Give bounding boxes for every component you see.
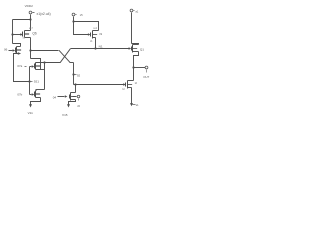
terminal arrow bottom right	[130, 103, 133, 106]
wire Q7a/Q7b gate vertical	[29, 67, 31, 95]
net stub 92c	[74, 74, 77, 76]
transistor Q4 channel bar	[70, 93, 72, 101]
svg-text:N1: N1	[99, 44, 103, 48]
junction dot Q4 drain	[74, 83, 76, 85]
transistor Q6 source stub	[25, 37, 31, 39]
wire net N1 long	[71, 48, 130, 50]
transistor Q7a drain stub	[36, 62, 61, 64]
transistor Q4 gate bar	[69, 95, 71, 99]
transistor Q6b bulk dashes	[17, 49, 22, 51]
wire cascode vertical	[44, 63, 46, 90]
wire Q9 source down	[95, 38, 97, 49]
svg-text:07a: 07a	[17, 64, 22, 68]
transistor Q1 drain stub	[133, 44, 139, 46]
wire pin stub ct	[76, 14, 77, 16]
transistor Q6b gate bar	[15, 48, 17, 53]
arrow Q7a gate	[32, 65, 35, 68]
svg-text:b2: b2	[122, 89, 125, 91]
transistor Q7b bulk dashes	[36, 93, 41, 95]
transistor Q7b gate bar	[34, 92, 36, 97]
arrow Q1 gate	[129, 47, 132, 50]
svg-text:92: 92	[77, 73, 81, 77]
svg-text:V15: V15	[62, 113, 68, 117]
wire Q7b gate bend	[30, 94, 32, 96]
pin Q4 bulk	[77, 95, 80, 98]
svg-text:t9: t9	[100, 32, 103, 36]
transistor Q1b drain stub	[128, 80, 134, 82]
svg-text:Q1: Q1	[140, 47, 144, 51]
wire cross upper-left arm	[31, 50, 59, 52]
transistor Q4 bulk dashes	[71, 96, 76, 98]
wire center vertical down	[73, 63, 75, 85]
svg-text:x1(x2.u4): x1(x2.u4)	[37, 12, 51, 16]
wire VDD2 stub	[33, 12, 35, 14]
wire Q4 drain up	[75, 85, 77, 93]
wire Q6b drain route	[13, 44, 21, 47]
transistor Q7b channel bar	[35, 91, 37, 98]
wire cross bottom right	[70, 62, 74, 64]
wire Q4 gate stub	[58, 96, 65, 98]
transistor Q1b gate bar	[125, 83, 127, 87]
wire tr down	[131, 13, 133, 44]
arrow Q7b gate	[32, 93, 35, 96]
transistor Q1 gate bar	[131, 47, 133, 51]
transistor Q9 drain stub	[93, 30, 99, 32]
wire Q1 source route	[134, 52, 139, 68]
wire Q7a diode vertical	[40, 63, 42, 70]
junction dot node n2	[29, 49, 31, 51]
wire Q6 gate	[13, 34, 21, 36]
transistor Q9 bulk dashes	[93, 34, 98, 36]
svg-text:d1: d1	[90, 41, 93, 43]
transistor Q9 source stub	[93, 37, 96, 39]
junction dot Q6 gate	[11, 33, 13, 35]
wire Q6b source route	[14, 54, 30, 82]
junction dot OUT	[132, 66, 134, 68]
junction dot cascode	[43, 61, 45, 63]
junction dot net 92c	[72, 73, 74, 75]
transistor Q4 drain stub	[71, 92, 76, 94]
pin center top	[72, 13, 75, 16]
wire Q4 bulk	[73, 96, 77, 98]
transistor Q7b drain stub	[36, 90, 37, 92]
junction dot rail	[29, 18, 31, 20]
svg-text:VDD2: VDD2	[25, 4, 34, 8]
wire cross diagonal up	[60, 49, 70, 63]
leader OUT	[146, 70, 148, 73]
svg-text:a1: a1	[136, 10, 139, 13]
arrow Q9 gate	[88, 33, 91, 36]
transistor Q1 source stub	[133, 51, 139, 53]
pin OUT	[145, 66, 148, 69]
svg-text:a17: a17	[29, 28, 34, 30]
transistor Q6 channel bar	[24, 31, 26, 38]
junction dot Q6b source	[17, 52, 19, 54]
transistor Q1b channel bar	[127, 81, 129, 89]
svg-text:Q6: Q6	[32, 32, 36, 36]
svg-text:x5: x5	[80, 13, 83, 17]
wire Q7a gate bend	[30, 66, 32, 68]
transistor Q6b channel bar	[16, 47, 18, 54]
svg-text:07b: 07b	[17, 93, 22, 97]
junction dot mirror node	[28, 80, 30, 82]
arrow Q4 gate	[65, 95, 68, 98]
transistor Q7b source stub	[36, 97, 41, 99]
transistor Q4 source stub	[71, 99, 76, 101]
transistor Q6 drain stub	[25, 30, 31, 32]
transistor Q1 channel bar	[132, 45, 134, 53]
terminal arrow V15	[67, 104, 70, 107]
wire left vertical	[12, 20, 14, 44]
transistor Q7a bulk dashes	[36, 65, 41, 67]
leader Q4 bulk	[78, 99, 80, 101]
wire to Q9 drain	[74, 22, 99, 31]
net stub 92	[30, 81, 33, 83]
arrow Q1b gate	[123, 83, 126, 86]
transistor Q1 bulk dashes	[133, 48, 138, 50]
svg-text:OUT: OUT	[143, 75, 149, 79]
pin VDD2	[29, 11, 32, 14]
wire pin stub tr	[134, 10, 135, 12]
wire cross diagonal down	[59, 50, 70, 62]
arrow Q6 gate	[20, 33, 23, 36]
terminal stub br	[133, 104, 136, 106]
transistor Q1b source stub	[128, 87, 132, 89]
svg-text:04: 04	[53, 95, 57, 99]
wire top rail	[13, 19, 31, 21]
wire to Q1 drain	[132, 44, 139, 45]
transistor Q6 gate bar	[22, 32, 24, 37]
wire to OUT pin	[134, 67, 146, 69]
wire Q1b source down	[131, 88, 133, 104]
junction dot Q9 source	[94, 47, 96, 49]
wire Q4 source route	[69, 100, 76, 105]
wire OUT down to Q1b drain	[133, 68, 135, 81]
svg-text:921: 921	[34, 80, 39, 84]
pin top right	[130, 9, 133, 12]
wire V11 route	[31, 98, 41, 105]
transistor Q7a gate bar	[34, 64, 36, 69]
wire Q7b drain stub main	[36, 89, 45, 91]
svg-text:V11: V11	[28, 111, 34, 115]
transistor Q6 bulk dashes	[25, 33, 30, 35]
terminal arrow V11	[29, 104, 32, 107]
arrow Q6b gate	[13, 49, 16, 52]
wire Q7a drain route	[31, 59, 41, 63]
transistor Q7a source stub	[36, 69, 45, 71]
transistor Q9 gate bar	[90, 33, 92, 37]
junction dot ct	[72, 20, 74, 22]
svg-text:s5: s5	[77, 105, 80, 108]
transistor Q6b drain stub	[17, 46, 21, 48]
wire VDD2 down to Q6 drain	[30, 15, 32, 31]
svg-text:su2: su2	[93, 28, 97, 30]
transistor Q9 channel bar	[92, 31, 94, 39]
svg-text:06: 06	[4, 47, 8, 51]
wire to Q9 gate	[74, 22, 89, 35]
transistor Q1b bulk dashes	[128, 84, 133, 86]
wire Q1b gate long	[74, 84, 124, 86]
wire Q6 source down	[30, 38, 32, 59]
label stub 07a	[25, 66, 27, 68]
wire Q6b gate	[9, 50, 13, 52]
wire pin ct down	[73, 17, 75, 22]
transistor Q6b source stub	[17, 53, 21, 55]
svg-text:t2: t2	[135, 82, 138, 85]
transistor Q7a channel bar	[35, 63, 37, 70]
svg-text:s1: s1	[136, 103, 139, 107]
